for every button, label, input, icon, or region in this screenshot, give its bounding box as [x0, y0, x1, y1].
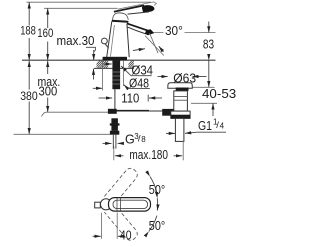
dim Ø48	[93, 87, 103, 89]
rod junction knob	[108, 109, 117, 114]
cap dome	[113, 13, 129, 20]
counter hatch left	[92, 60, 116, 70]
dim 188	[28, 2, 30, 25]
counter top line	[22, 59, 216, 61]
svg-text:max.180: max.180	[129, 147, 168, 162]
svg-text:40-53: 40-53	[202, 87, 236, 101]
dim 380	[28, 61, 30, 90]
Ø48 extension lines	[101, 60, 103, 90]
handle hub joint lines	[116, 198, 118, 211]
upper swing arc arrow	[150, 177, 157, 194]
30 deg annotation	[154, 32, 216, 34]
svg-text:160: 160	[37, 28, 53, 40]
counter bottom line	[94, 67, 134, 69]
svg-text:Ø63: Ø63	[173, 72, 196, 86]
shank through counter	[112, 60, 120, 89]
lower swing arc arrow	[149, 216, 157, 232]
body left edge	[107, 21, 112, 57]
extension line max.300 bottom / pop-up rod guide	[42, 112, 109, 116]
lever underside	[128, 12, 150, 14]
svg-text:50°: 50°	[149, 219, 165, 233]
G1 1/4 label	[197, 131, 226, 133]
30 deg leg B	[150, 33, 159, 53]
svg-text:4: 4	[220, 121, 225, 130]
svg-text:Ø34: Ø34	[132, 64, 154, 78]
extension line top (188)	[27, 1, 152, 3]
body inner contour	[111, 25, 115, 57]
drain slot dark	[176, 88, 189, 91]
svg-text:30°: 30°	[165, 23, 183, 38]
drain flange	[168, 83, 193, 89]
drain neck	[174, 91, 188, 111]
drain rod knob	[162, 109, 174, 116]
spout top edge	[127, 23, 148, 30]
faucet phantom raised lever	[118, 2, 157, 9]
dim 160	[47, 8, 49, 28]
30 deg leg A	[145, 36, 164, 56]
svg-text:380: 380	[20, 89, 38, 103]
dim G3/8	[103, 142, 112, 144]
extension line (160)	[44, 7, 118, 9]
svg-text:8: 8	[141, 135, 146, 144]
handle inner outline	[113, 200, 148, 208]
handle top view: dashed +50	[104, 166, 139, 204]
dim Ø34	[103, 63, 111, 65]
drain collar	[171, 111, 190, 118]
dim Ø63	[158, 76, 168, 78]
handle knob circle	[100, 199, 111, 210]
joint band	[112, 21, 129, 22]
faucet base band	[103, 57, 127, 60]
horizontal pop-up rod	[117, 110, 150, 112]
body right edge	[127, 24, 129, 58]
dim 40-53	[191, 86, 215, 88]
spout tip dark	[145, 29, 154, 35]
30 deg arc arrow left	[133, 49, 145, 51]
pull rod knob	[102, 38, 108, 44]
lever black tip	[142, 5, 155, 12]
svg-text:G1: G1	[198, 119, 212, 133]
hose twin lines	[112, 135, 114, 149]
faucet lever top edge	[114, 5, 144, 11]
svg-text:Ø48: Ø48	[129, 77, 149, 91]
dim 110	[99, 97, 113, 99]
dim max.180	[113, 146, 115, 160]
svg-text:40: 40	[120, 228, 132, 242]
svg-text:max.30: max.30	[57, 33, 95, 48]
svg-text:188: 188	[20, 26, 36, 38]
svg-text:300: 300	[39, 84, 58, 98]
dim 40	[101, 213, 103, 239]
svg-text:50°: 50°	[149, 183, 165, 197]
spout underside	[127, 27, 146, 34]
svg-text:110: 110	[121, 90, 139, 105]
threaded adjuster	[111, 118, 118, 131]
extension line 380 bottom	[14, 133, 111, 135]
dim max.300	[47, 61, 49, 74]
handle solid body	[109, 198, 151, 212]
bottom nut	[110, 131, 119, 135]
handle top view: dashed -50	[104, 204, 139, 242]
dim 83	[208, 22, 210, 33]
handle tab	[95, 202, 101, 208]
30 deg arrowhead on leg	[159, 46, 164, 52]
drain tailpipe	[175, 118, 184, 141]
swing arc right	[156, 198, 158, 210]
pull rod below shank	[114, 89, 116, 109]
svg-text:83: 83	[203, 37, 214, 51]
counter hatch right	[124, 60, 141, 70]
